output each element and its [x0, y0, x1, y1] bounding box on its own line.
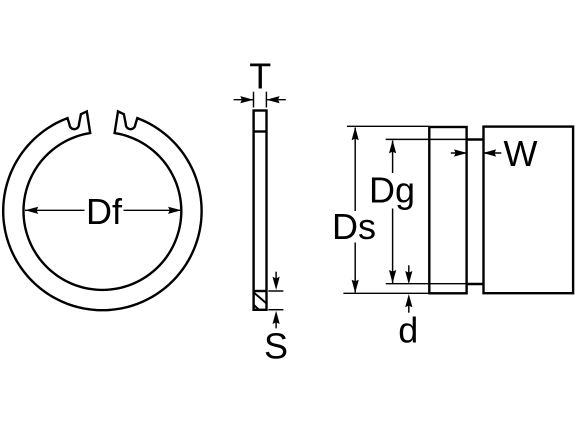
svg-text:S: S [264, 326, 288, 367]
T dimension [234, 92, 286, 108]
svg-text:Ds: Ds [332, 206, 376, 247]
svg-text:T: T [249, 55, 271, 96]
svg-text:Dg: Dg [369, 169, 415, 210]
Df dimension [25, 209, 181, 211]
svg-text:Df: Df [86, 191, 123, 232]
svg-text:d: d [398, 310, 418, 351]
retaining ring outline [3, 111, 201, 310]
assembly view [429, 127, 573, 294]
cross section [254, 111, 267, 310]
S dimension [268, 272, 283, 329]
svg-text:W: W [504, 133, 538, 174]
